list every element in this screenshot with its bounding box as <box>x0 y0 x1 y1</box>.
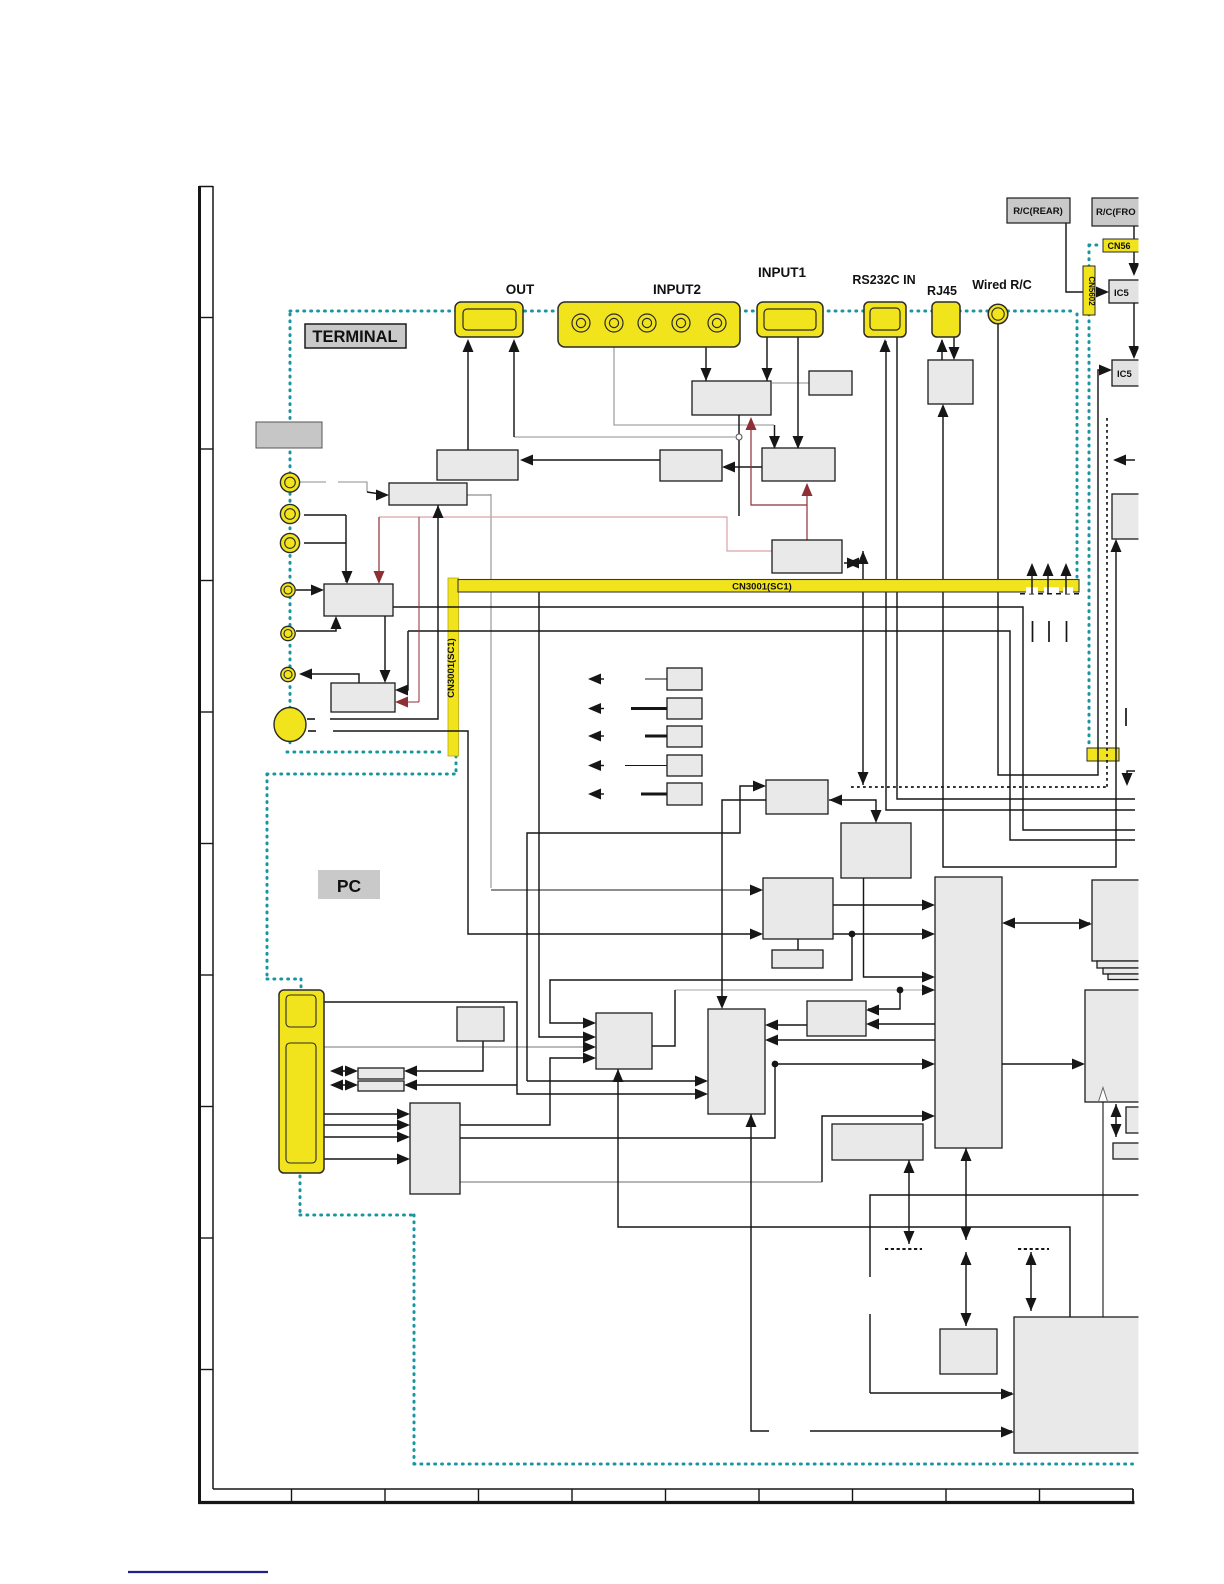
svg-text:TERMINAL: TERMINAL <box>312 328 397 346</box>
svg-text:IC5: IC5 <box>1114 288 1130 299</box>
svg-text:PC: PC <box>337 876 362 896</box>
svg-text:CN3001(SC1): CN3001(SC1) <box>732 582 792 593</box>
svg-text:OUT: OUT <box>506 282 535 297</box>
svg-text:CN5602: CN5602 <box>1087 276 1096 306</box>
svg-text:INPUT1: INPUT1 <box>758 265 807 280</box>
svg-text:Wired R/C: Wired R/C <box>972 278 1032 292</box>
svg-text:R/C(REAR): R/C(REAR) <box>1013 206 1063 217</box>
svg-text:R/C(FRO: R/C(FRO <box>1096 207 1136 218</box>
svg-text:CN3001(SC1): CN3001(SC1) <box>446 638 457 698</box>
svg-text:RS232C IN: RS232C IN <box>852 273 915 287</box>
svg-text:RJ45: RJ45 <box>927 284 957 298</box>
svg-text:INPUT2: INPUT2 <box>653 282 701 297</box>
svg-text:CN56: CN56 <box>1107 241 1130 251</box>
svg-text:IC5: IC5 <box>1117 369 1133 380</box>
